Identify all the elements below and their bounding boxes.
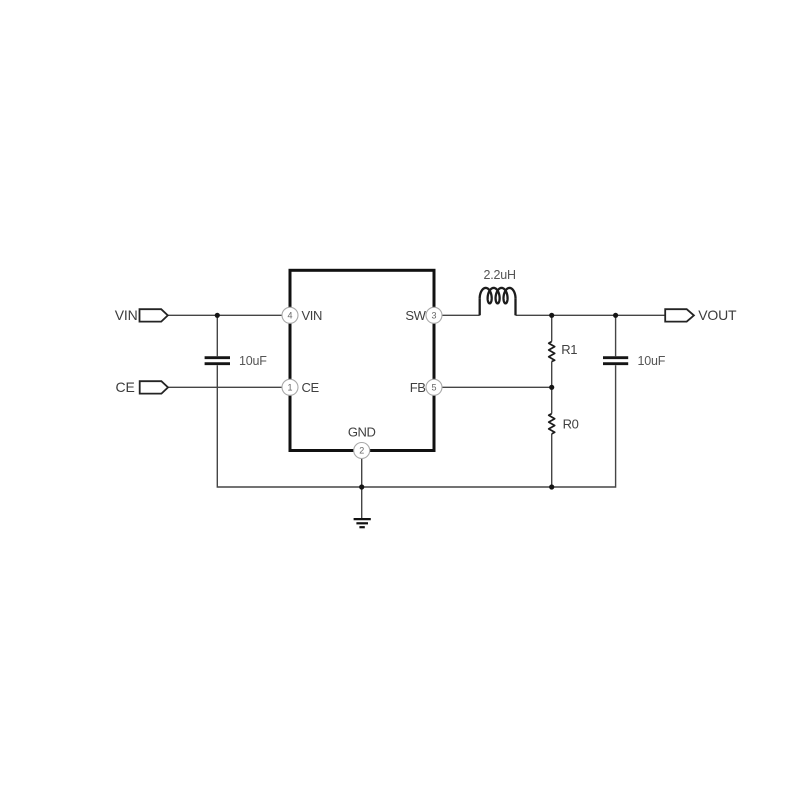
- pin 2 GND: [354, 443, 370, 459]
- pin 3 SW: [426, 307, 442, 323]
- node VOUT-R1 junction: [549, 313, 554, 318]
- pin label FB: [410, 380, 426, 395]
- op-amp U1 (regulator IC body): [290, 270, 434, 450]
- value label R0: [563, 416, 579, 431]
- pin 1 CE: [282, 379, 298, 395]
- pin 5 FB: [426, 379, 442, 395]
- svg-text:10uF: 10uF: [239, 354, 267, 368]
- wire SW net: pin 3 to inductor: [442, 314, 480, 316]
- svg-text:5: 5: [431, 382, 436, 392]
- pin 4 VIN: [282, 307, 298, 323]
- wire R1 top branch: [551, 315, 553, 341]
- svg-text:CE: CE: [302, 380, 320, 395]
- wire VIN net: port to pin 4: [168, 314, 282, 316]
- svg-text:SW: SW: [405, 308, 426, 323]
- svg-text:10uF: 10uF: [638, 354, 666, 368]
- node VIN junction: [215, 313, 220, 318]
- svg-text:FB: FB: [410, 380, 426, 395]
- resistor R0: [549, 414, 555, 434]
- svg-text:VOUT: VOUT: [698, 307, 737, 323]
- wire ground symbol stem: [361, 487, 363, 519]
- svg-text:1: 1: [287, 382, 292, 392]
- wire CE net: port to pin 1: [168, 386, 282, 388]
- svg-text:CE: CE: [116, 379, 135, 395]
- svg-text:4: 4: [287, 310, 292, 320]
- svg-text:3: 3: [431, 310, 436, 320]
- svg-text:2.2uH: 2.2uH: [484, 268, 517, 282]
- port CE: [116, 379, 168, 395]
- port VIN: [115, 307, 168, 323]
- value label L1 2.2uH: [484, 268, 517, 282]
- svg-text:VIN: VIN: [115, 307, 138, 323]
- node ground junction: [359, 484, 364, 489]
- capacitor C2 10uF: [603, 358, 628, 364]
- inductor L1: [480, 288, 516, 315]
- svg-text:2: 2: [359, 446, 364, 456]
- svg-text:R0: R0: [563, 416, 579, 431]
- wire VOUT net: inductor to port: [516, 314, 666, 316]
- value label C1 10uF: [239, 354, 267, 368]
- wire C1 top branch: [216, 315, 218, 356]
- wire FB net: pin 5 to divider: [442, 386, 552, 388]
- wire R0 bottom to ground rail: [551, 434, 553, 487]
- wire R1 bottom to FB node: [551, 362, 553, 414]
- node VOUT-C2 junction: [613, 313, 618, 318]
- ground: [354, 519, 371, 527]
- value label R1: [561, 342, 577, 357]
- resistor R1: [549, 342, 555, 362]
- pin label SW: [405, 308, 426, 323]
- pin label CE: [302, 380, 320, 395]
- wire C1 bottom to ground rail: [217, 365, 615, 487]
- pin label GND: [348, 425, 376, 440]
- capacitor C1 10uF: [205, 358, 230, 364]
- node R0-ground junction: [549, 484, 554, 489]
- svg-text:VIN: VIN: [302, 308, 322, 323]
- node FB junction: [549, 385, 554, 390]
- pin label VIN: [302, 308, 322, 323]
- port VOUT: [665, 307, 737, 323]
- svg-text:R1: R1: [561, 342, 577, 357]
- svg-text:GND: GND: [348, 425, 376, 440]
- wire GND pin stem: [361, 459, 363, 488]
- value label C2 10uF: [638, 354, 666, 368]
- wire C2 top branch: [615, 315, 617, 356]
